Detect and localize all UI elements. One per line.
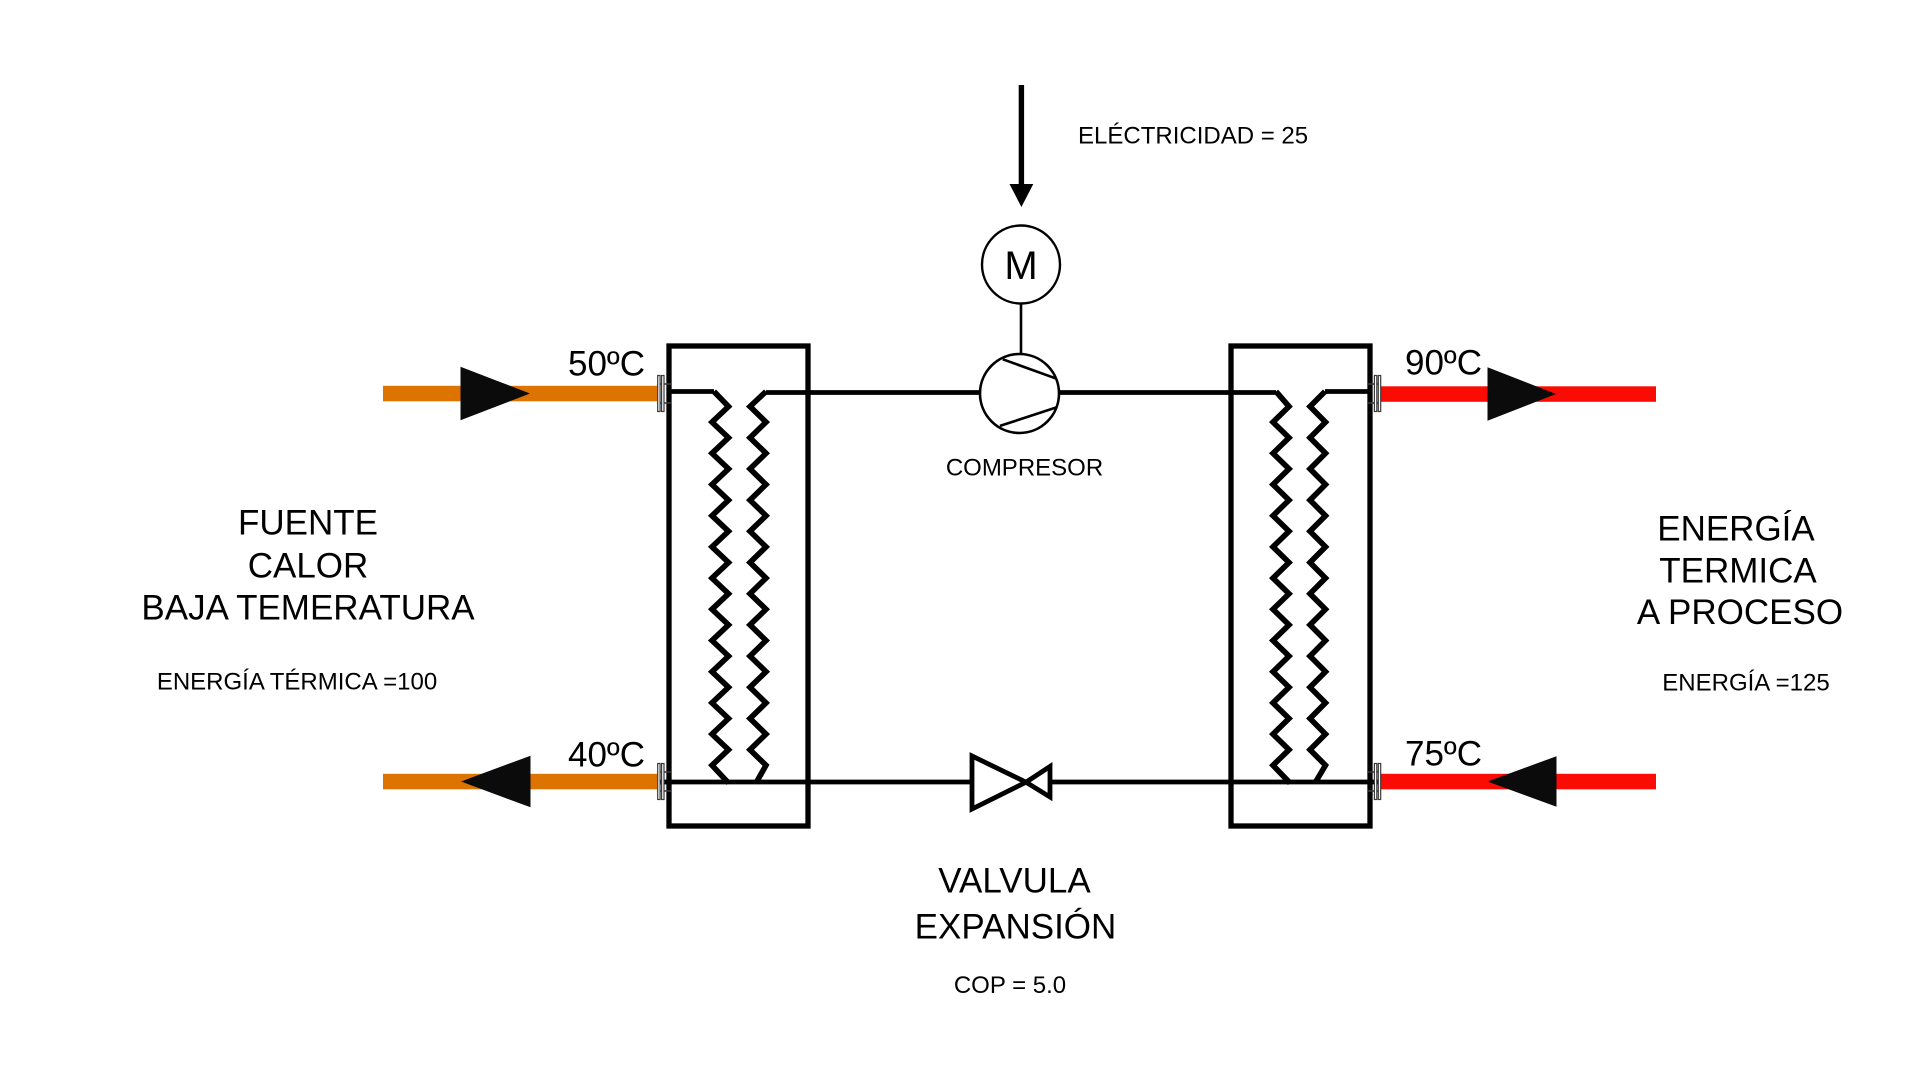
svg-text:TERMICA: TERMICA bbox=[1659, 552, 1817, 591]
expansion valve right triangle bbox=[1026, 767, 1050, 798]
left evaporator coil B (zigzag) bbox=[750, 392, 766, 784]
electricity input arrow bbox=[1019, 85, 1024, 185]
svg-text:EXPANSIÓN: EXPANSIÓN bbox=[915, 908, 1117, 947]
orange outlet pipe 40C (bottom left) bbox=[383, 774, 659, 790]
flange at 50C inlet bbox=[658, 376, 671, 412]
arrow on 50C pipe (points right) bbox=[461, 367, 531, 421]
arrow on 40C pipe (points left) bbox=[461, 756, 531, 808]
right condenser coil A (zigzag) bbox=[1273, 392, 1290, 784]
svg-text:VALVULA: VALVULA bbox=[938, 862, 1091, 901]
red inlet pipe 75C (bottom right) bbox=[1380, 774, 1656, 790]
left heat exchanger (evaporator) shell bbox=[669, 346, 808, 826]
compressor circle bbox=[980, 354, 1059, 433]
svg-text:75ºC: 75ºC bbox=[1405, 735, 1482, 774]
red outlet pipe 90C (top right) bbox=[1380, 386, 1656, 402]
svg-text:40ºC: 40ºC bbox=[568, 736, 645, 775]
svg-text:ELÉCTRICIDAD = 25: ELÉCTRICIDAD = 25 bbox=[1078, 123, 1308, 150]
svg-text:COP = 5.0: COP = 5.0 bbox=[954, 972, 1066, 999]
svg-text:ENERGÍA: ENERGÍA bbox=[1657, 510, 1815, 549]
svg-text:ENERGÍA TÉRMICA =100: ENERGÍA TÉRMICA =100 bbox=[157, 669, 437, 696]
top refrigerant line: left exchanger to compressor bbox=[766, 390, 981, 395]
svg-text:BAJA TEMERATURA: BAJA TEMERATURA bbox=[141, 589, 475, 628]
flange at 40C outlet bbox=[658, 764, 671, 800]
right heat exchanger (condenser) shell bbox=[1231, 346, 1370, 826]
svg-text:ENERGÍA =125: ENERGÍA =125 bbox=[1662, 670, 1829, 697]
compressor lower vane line bbox=[1000, 407, 1057, 426]
compressor upper vane line bbox=[1003, 359, 1057, 378]
flange at 75C inlet bbox=[1368, 764, 1381, 800]
top refrigerant line: compressor to right exchanger bbox=[1059, 390, 1277, 395]
flange at 90C outlet bbox=[1368, 376, 1381, 412]
bottom refrigerant line through expansion valve bbox=[660, 780, 1380, 785]
svg-text:CALOR: CALOR bbox=[248, 547, 369, 586]
motor shaft wire bbox=[1020, 304, 1023, 356]
svg-text:COMPRESOR: COMPRESOR bbox=[946, 455, 1103, 482]
orange inlet pipe 50C (top left) bbox=[383, 386, 659, 402]
motor M circle bbox=[982, 226, 1060, 304]
left evaporator coil A (zigzag) bbox=[712, 392, 729, 784]
svg-text:M: M bbox=[1004, 244, 1037, 288]
svg-text:90ºC: 90ºC bbox=[1405, 344, 1482, 383]
arrow on 90C pipe (points right) bbox=[1488, 367, 1557, 421]
expansion valve left triangle bbox=[972, 756, 1026, 809]
svg-text:FUENTE: FUENTE bbox=[238, 504, 378, 543]
top refrigerant line: right exchanger outlet stub bbox=[1325, 389, 1371, 394]
top refrigerant line: left exchanger stub bbox=[668, 389, 714, 394]
svg-text:A PROCESO: A PROCESO bbox=[1637, 593, 1843, 632]
arrow on 75C pipe (points left) bbox=[1488, 756, 1557, 807]
svg-text:50ºC: 50ºC bbox=[568, 345, 645, 384]
right condenser coil B (zigzag) bbox=[1310, 392, 1326, 784]
